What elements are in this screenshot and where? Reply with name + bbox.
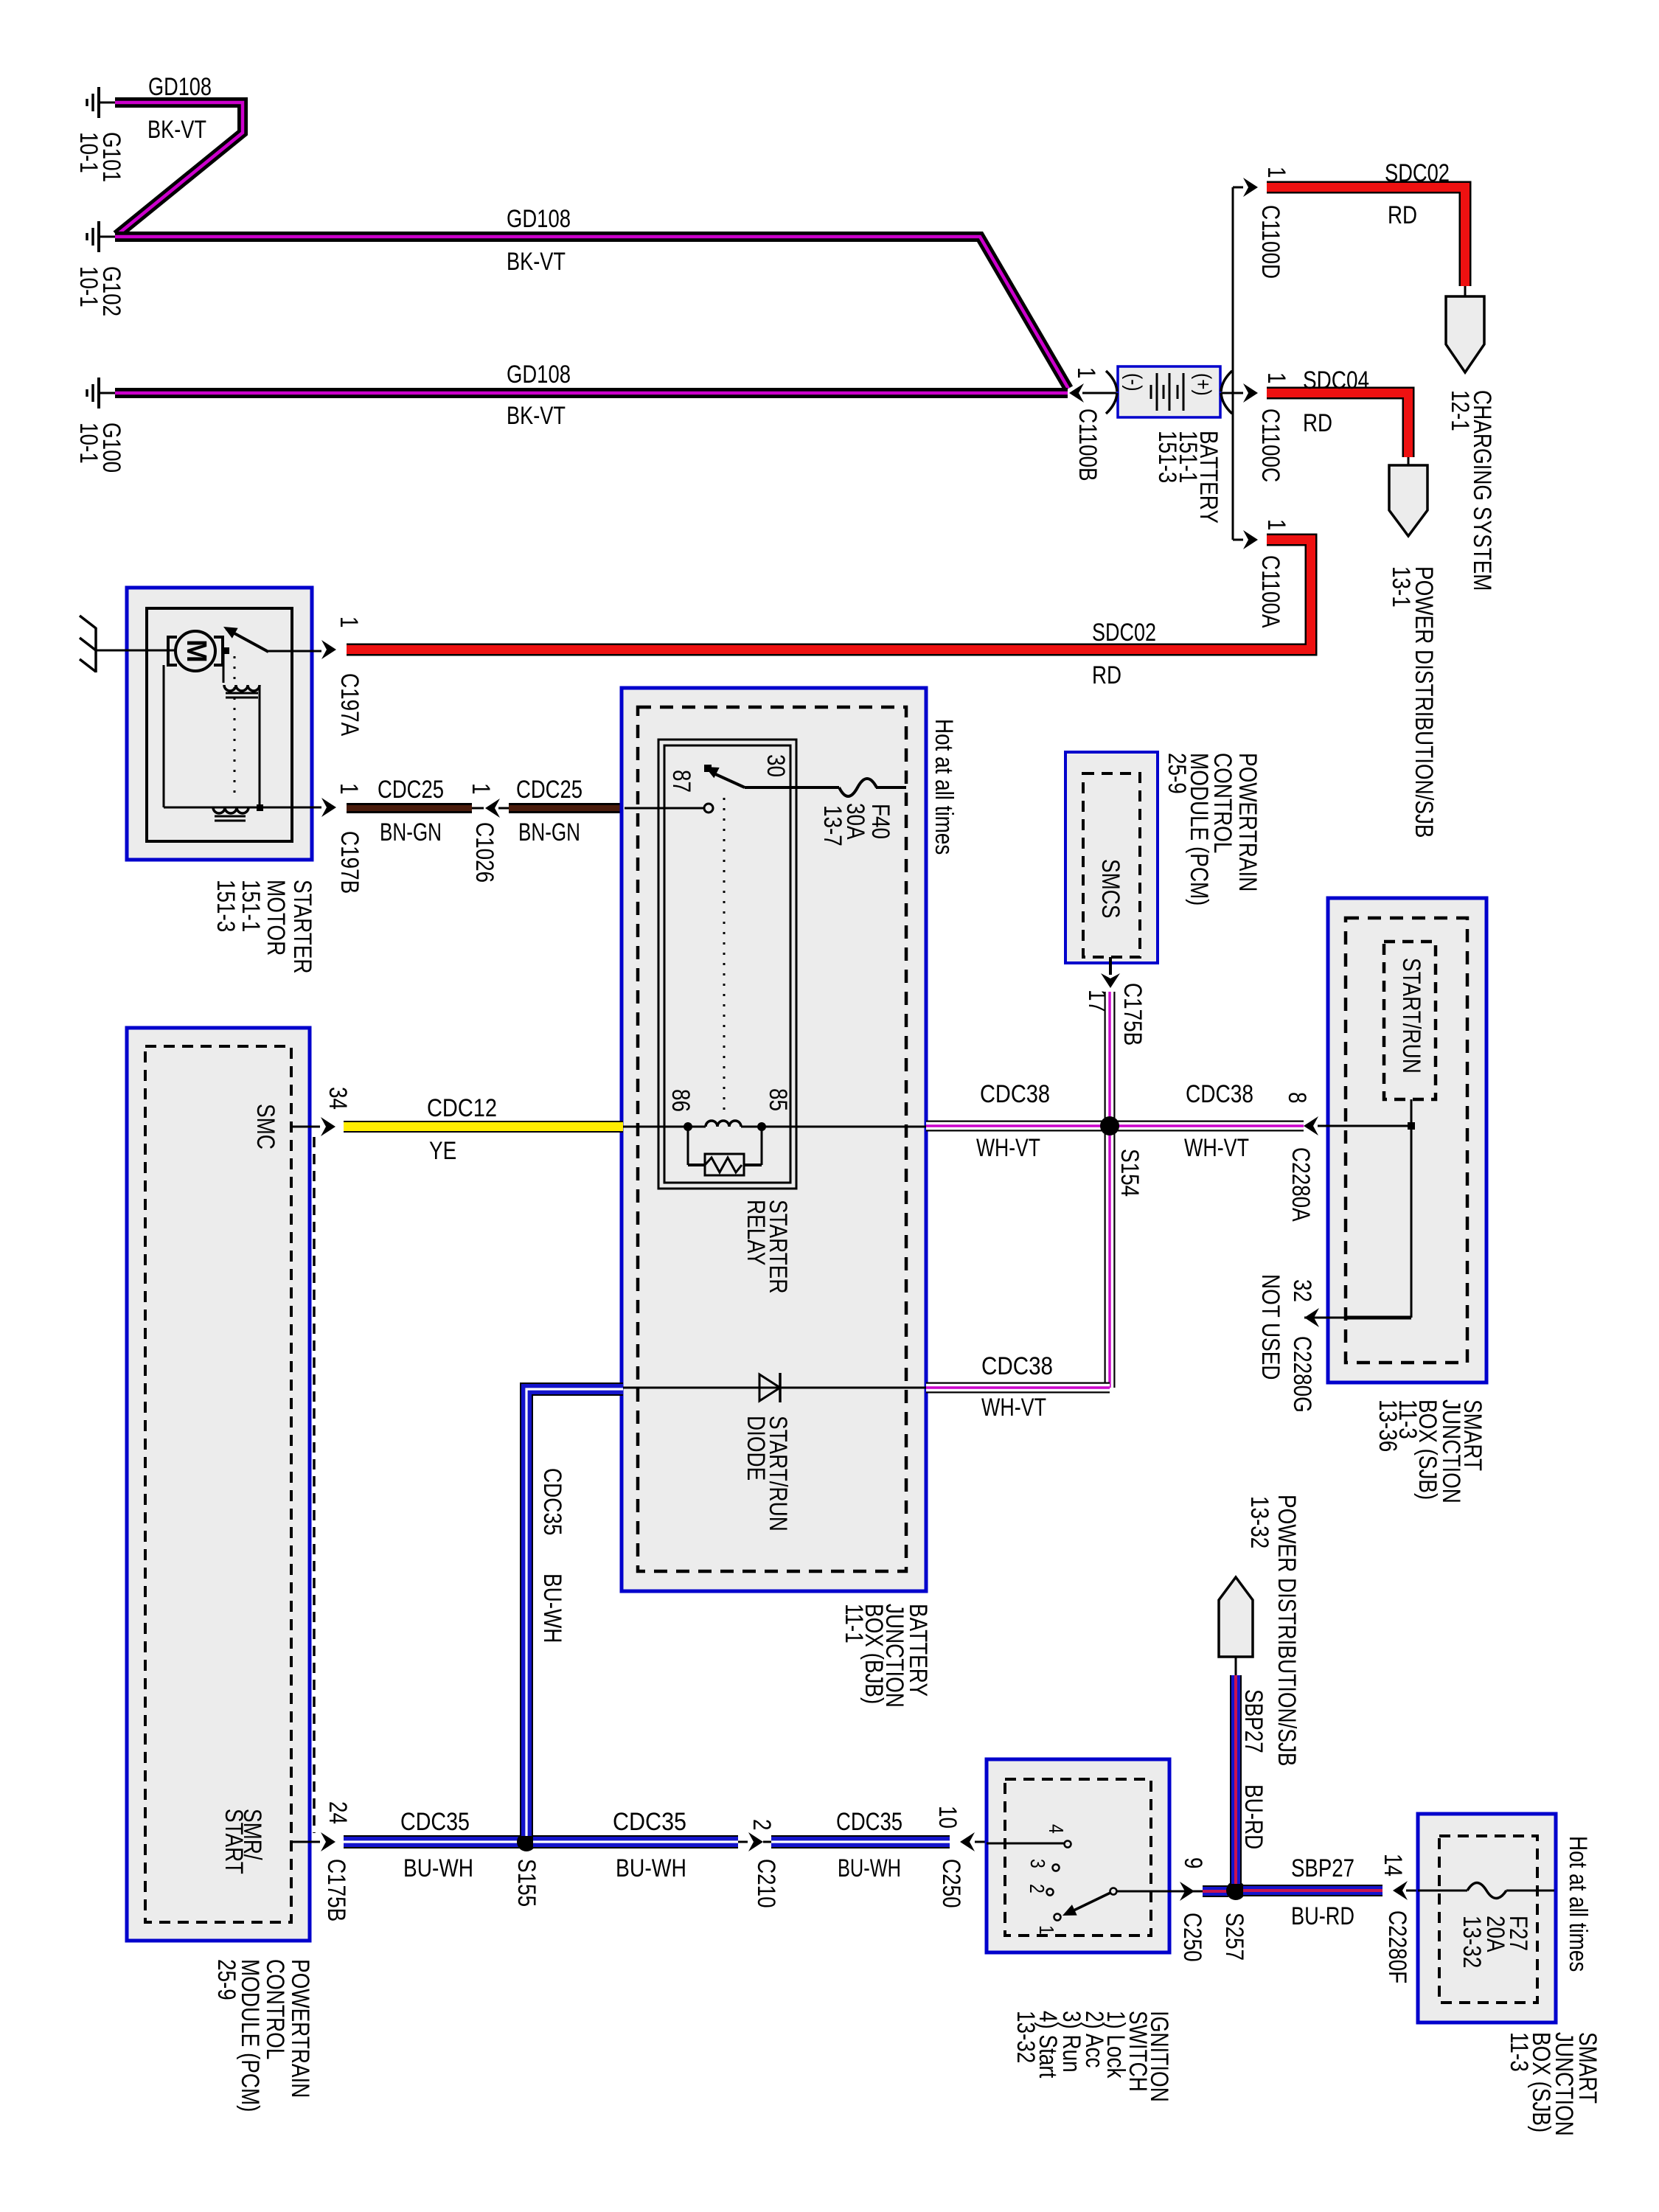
SJB internal wiring — [1411, 1099, 1413, 1318]
svg-text:25-9: 25-9 — [1163, 753, 1191, 794]
svg-text:3: 3 — [1026, 1859, 1048, 1868]
START/RUN function box — [1384, 942, 1436, 1099]
splice S154 — [1100, 1116, 1119, 1135]
ignition switch contacts — [987, 1843, 1065, 1845]
svg-text:C1026: C1026 — [470, 822, 498, 883]
svg-text:WH-VT: WH-VT — [976, 1133, 1040, 1161]
connector C1100D — [1233, 187, 1243, 189]
svg-text:POWERTRAIN: POWERTRAIN — [286, 1959, 314, 2098]
wire SBP27 BU-RD vertical to connector — [1230, 1675, 1242, 1884]
svg-text:BU-WH: BU-WH — [838, 1854, 901, 1882]
relay coil suppression resistor — [687, 1127, 689, 1165]
svg-text:151-3: 151-3 — [212, 880, 240, 932]
start/run diode — [622, 1387, 926, 1389]
svg-text:11-1: 11-1 — [840, 1604, 868, 1644]
svg-text:F40: F40 — [866, 804, 894, 839]
solenoid hold-in coil — [163, 665, 165, 807]
svg-text:1: 1 — [335, 616, 363, 628]
svg-text:13-36: 13-36 — [1374, 1399, 1402, 1452]
ground G101 — [97, 87, 100, 118]
svg-text:C175B: C175B — [322, 1859, 350, 1921]
svg-text:12-1: 12-1 — [1446, 390, 1474, 431]
svg-text:1: 1 — [1262, 372, 1290, 384]
svg-text:START/RUN: START/RUN — [1397, 958, 1425, 1074]
wire CDC35 BU-WH vertical to diode — [526, 1389, 623, 1836]
svg-text:C210: C210 — [752, 1859, 780, 1908]
wire CDC35 BU-WH (C210 to C250) — [771, 1835, 950, 1848]
wire CDC35 BU-WH (PCM to S155) — [344, 1835, 520, 1848]
svg-text:CONTROL: CONTROL — [261, 1959, 289, 2059]
svg-text:10: 10 — [933, 1806, 961, 1829]
svg-text:SDC02: SDC02 — [1092, 618, 1156, 646]
wire CDC38 WH-VT to diode — [926, 1382, 1110, 1394]
solenoid pull-in coil — [223, 652, 225, 683]
svg-text:32: 32 — [1288, 1279, 1316, 1302]
ignition switch wiper — [1110, 1888, 1117, 1895]
svg-text:STARTER: STARTER — [288, 880, 316, 974]
wire SDC04 RD to power distribution — [1267, 393, 1408, 457]
svg-text:SDC02: SDC02 — [1385, 159, 1450, 187]
svg-text:RD: RD — [1303, 408, 1332, 437]
motor M — [175, 631, 215, 671]
svg-text:87: 87 — [667, 770, 695, 793]
wire GD108 BK-VT from G101 — [115, 102, 243, 235]
svg-text:C1100C: C1100C — [1256, 408, 1284, 482]
PCM pin 24 connector C175B — [291, 1841, 320, 1843]
relay coil — [622, 1126, 706, 1128]
wire CDC12 YE (PCM 34 to relay 86) — [344, 1121, 623, 1133]
svg-text:S257: S257 — [1220, 1913, 1248, 1961]
svg-text:C175B: C175B — [1119, 983, 1147, 1046]
wire CDC25 BN-GN (C1026 to BJB) — [509, 803, 622, 813]
connector C1100B arrow — [1082, 392, 1118, 394]
svg-text:2: 2 — [1025, 1884, 1048, 1893]
svg-text:RELAY: RELAY — [742, 1200, 770, 1266]
svg-text:YE: YE — [429, 1136, 456, 1164]
svg-text:CDC35: CDC35 — [400, 1807, 470, 1835]
svg-text:C1100D: C1100D — [1256, 205, 1284, 279]
svg-text:BK-VT: BK-VT — [147, 115, 206, 143]
connector C1026 — [472, 807, 484, 810]
starter relay — [658, 740, 796, 1189]
connector C250 pin 10 — [960, 1832, 975, 1851]
svg-text:CDC35: CDC35 — [613, 1807, 686, 1835]
PCM box (SMC / SMR-START) — [127, 1028, 310, 1941]
svg-text:CDC38: CDC38 — [1186, 1079, 1253, 1107]
svg-text:1: 1 — [1034, 1925, 1057, 1935]
relay contact 87 — [704, 765, 712, 772]
svg-text:10-1: 10-1 — [74, 132, 102, 173]
svg-text:BU-WH: BU-WH — [616, 1854, 686, 1882]
svg-text:1: 1 — [467, 783, 495, 795]
svg-text:BN-GN: BN-GN — [380, 818, 442, 846]
svg-text:151-1: 151-1 — [237, 880, 265, 932]
wire SDC02 RD to charging system — [1267, 187, 1465, 286]
svg-text:13-32: 13-32 — [1245, 1496, 1273, 1548]
svg-text:BU-WH: BU-WH — [538, 1573, 566, 1643]
svg-text:13-32: 13-32 — [1458, 1916, 1486, 1968]
relay plunger link — [723, 798, 726, 1110]
PCM pin 34 — [291, 1126, 320, 1128]
connector C197B — [292, 807, 321, 809]
connector C197A — [321, 640, 336, 659]
svg-text:C2280G: C2280G — [1288, 1336, 1316, 1413]
chassis ground at starter — [94, 627, 97, 672]
svg-text:DIODE: DIODE — [742, 1416, 770, 1481]
svg-text:C2280F: C2280F — [1383, 1910, 1411, 1983]
svg-text:(+): (+) — [1191, 373, 1216, 396]
fuse F27 20A — [1418, 1890, 1467, 1892]
svg-text:C197A: C197A — [335, 673, 364, 736]
svg-text:GD108: GD108 — [507, 360, 571, 388]
svg-text:C250: C250 — [937, 1859, 965, 1908]
svg-text:25-9: 25-9 — [212, 1959, 240, 2000]
svg-text:SMC: SMC — [251, 1104, 279, 1150]
battery BATTERY 151-1 151-3 — [1118, 366, 1220, 417]
connector to charging system — [1464, 286, 1467, 298]
svg-text:POWER DISTRIBUTION/SJB: POWER DISTRIBUTION/SJB — [1273, 1495, 1301, 1767]
svg-text:24: 24 — [324, 1801, 352, 1824]
connector C175B pin 17 — [1109, 957, 1112, 975]
svg-text:WH-VT: WH-VT — [1184, 1133, 1249, 1161]
wire battery branch vertical — [1232, 187, 1234, 540]
ignition switch box — [987, 1759, 1169, 1952]
relay switch arm — [712, 773, 745, 787]
svg-text:C2280A: C2280A — [1287, 1147, 1315, 1222]
svg-text:BK-VT: BK-VT — [507, 401, 566, 429]
connector to power distribution 13-1 — [1408, 457, 1410, 467]
svg-text:S155: S155 — [512, 1859, 540, 1907]
svg-text:M: M — [181, 639, 212, 663]
svg-text:11-3: 11-3 — [1505, 2032, 1533, 2072]
svg-text:RD: RD — [1092, 661, 1121, 689]
svg-text:SBP27: SBP27 — [1239, 1689, 1267, 1753]
smart junction box SJB (fuse F27) — [1418, 1814, 1556, 2023]
connector C1100C — [1243, 383, 1258, 403]
svg-text:CDC38: CDC38 — [980, 1079, 1050, 1107]
svg-text:MOTOR: MOTOR — [262, 880, 290, 956]
solenoid plunger link — [234, 656, 236, 801]
svg-text:CDC25: CDC25 — [516, 775, 582, 803]
starter solenoid switch — [223, 647, 229, 654]
svg-text:SDC04: SDC04 — [1303, 366, 1369, 394]
battery junction box BJB — [622, 688, 926, 1591]
svg-text:C1100A: C1100A — [1256, 555, 1284, 628]
svg-text:14: 14 — [1379, 1854, 1407, 1877]
svg-text:RD: RD — [1388, 201, 1417, 229]
svg-text:BU-RD: BU-RD — [1239, 1784, 1267, 1849]
svg-text:START: START — [220, 1809, 248, 1874]
starter motor box — [127, 588, 312, 860]
wire CDC35 BU-WH (S155 to C210) — [533, 1835, 738, 1848]
svg-text:BU-RD: BU-RD — [1291, 1902, 1354, 1930]
svg-text:86: 86 — [667, 1089, 695, 1112]
svg-text:4: 4 — [1044, 1824, 1067, 1834]
PCM SMCS box — [1065, 752, 1158, 963]
svg-text:CDC38: CDC38 — [981, 1352, 1053, 1380]
connector to power distribution 13-32 — [1219, 1577, 1253, 1657]
wire CDC38 WH-VT vertical — [1105, 992, 1116, 1388]
svg-text:10-1: 10-1 — [74, 422, 102, 464]
svg-text:1: 1 — [1262, 167, 1290, 178]
svg-text:BK-VT: BK-VT — [507, 247, 566, 275]
svg-text:POWERTRAIN: POWERTRAIN — [1234, 753, 1262, 891]
svg-text:85: 85 — [764, 1088, 792, 1111]
svg-text:Hot at all times: Hot at all times — [1564, 1836, 1592, 1972]
svg-text:Hot at all times: Hot at all times — [930, 719, 958, 855]
connector C2280A pin 8 — [1304, 1116, 1318, 1135]
svg-text:1: 1 — [335, 783, 363, 795]
wire GD108 BK-VT from G100 — [115, 388, 1068, 398]
svg-text:SMCS: SMCS — [1096, 859, 1124, 919]
svg-text:1: 1 — [1072, 367, 1100, 379]
svg-text:WH-VT: WH-VT — [981, 1393, 1046, 1421]
svg-text:NOT USED: NOT USED — [1256, 1274, 1284, 1380]
connector C2280F pin 14 — [1393, 1881, 1408, 1900]
svg-text:2: 2 — [748, 1819, 776, 1831]
svg-text:S154: S154 — [1116, 1149, 1144, 1197]
svg-text:(-): (-) — [1121, 373, 1147, 392]
wire SBP27 BU-RD (S257 to SJB) — [1243, 1885, 1382, 1896]
ground G102 — [97, 221, 100, 252]
svg-text:C250: C250 — [1178, 1913, 1206, 1962]
svg-text:1: 1 — [1262, 519, 1290, 531]
svg-text:SBP27: SBP27 — [1291, 1854, 1354, 1882]
splice S257 — [1226, 1881, 1245, 1900]
svg-text:10-1: 10-1 — [74, 266, 102, 307]
svg-text:GD108: GD108 — [507, 204, 571, 232]
svg-text:CDC35: CDC35 — [538, 1468, 566, 1535]
smart junction box SJB — [1328, 898, 1486, 1382]
svg-text:151-3: 151-3 — [1153, 431, 1181, 483]
wire SBP27 BU-RD (ignition to S257) — [1203, 1885, 1228, 1897]
splice S155 — [517, 1832, 536, 1851]
ground G100 — [97, 378, 100, 408]
svg-text:C197B: C197B — [335, 831, 364, 894]
wire CDC38 WH-VT horizontal — [926, 1121, 1304, 1132]
connector C250 pin 9 — [1180, 1882, 1194, 1901]
svg-text:CDC12: CDC12 — [427, 1093, 497, 1121]
svg-text:CDC35: CDC35 — [836, 1807, 902, 1835]
wire GD108 BK-VT from G102 — [115, 237, 1068, 389]
svg-text:13-7: 13-7 — [818, 805, 846, 846]
PCM internal dashed link — [313, 1137, 316, 1833]
wire SDC02 RD to starter motor — [347, 540, 1311, 650]
svg-text:GD108: GD108 — [148, 72, 212, 100]
relay pin30 wire and fuse F40 — [745, 786, 839, 789]
svg-text:8: 8 — [1283, 1092, 1311, 1104]
svg-text:CDC25: CDC25 — [378, 775, 444, 803]
svg-text:13-1: 13-1 — [1387, 566, 1415, 608]
svg-text:9: 9 — [1179, 1857, 1207, 1869]
svg-text:13-32: 13-32 — [1012, 2011, 1040, 2063]
svg-text:34: 34 — [324, 1087, 352, 1110]
connector C1100A — [1233, 539, 1243, 541]
wire CDC25 BN-GN (C197B to C1026) — [347, 803, 472, 813]
svg-text:BU-WH: BU-WH — [403, 1854, 473, 1882]
connector C210 pin 2 — [738, 1841, 748, 1843]
svg-text:C1100B: C1100B — [1074, 408, 1102, 481]
svg-text:30: 30 — [762, 754, 790, 777]
svg-text:BN-GN: BN-GN — [518, 818, 580, 846]
connector C2280G pin 32 NOT USED — [1346, 1316, 1411, 1320]
